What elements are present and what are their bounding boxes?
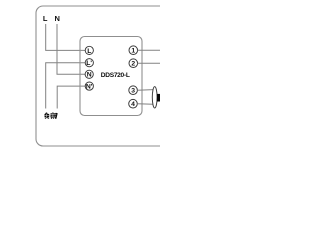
svg-text:4: 4 [131,101,135,108]
svg-text:N: N [54,14,59,23]
wire from terminal 2 to mains side [138,62,160,64]
terminal 1 [129,46,138,55]
terminal 2 [129,59,138,68]
svg-text:2: 2 [131,61,135,68]
wire from terminal N' down to load [57,86,85,108]
svg-text:L': L' [86,60,92,67]
wire from L down to terminal L [46,24,85,50]
wire from terminal L' down to load [46,63,85,109]
svg-text:N: N [87,72,92,79]
svg-text:N': N' [86,84,93,91]
svg-text:L: L [87,48,91,55]
svg-text:3: 3 [131,88,135,95]
load symbol cylinder end cap [152,87,157,108]
svg-text:1: 1 [131,48,135,55]
meter DDS720-L body [80,37,142,116]
svg-text:DDS720-L: DDS720-L [101,72,130,79]
terminal N [85,70,93,78]
terminal 3 [129,86,138,95]
wire from N down to terminal N [57,24,85,74]
wire from terminal 3 to load symbol [137,89,153,92]
load symbol body [157,94,160,102]
wire from terminal 4 to load symbol [137,103,153,106]
wire from terminal 1 to mains side [138,49,160,51]
terminal L [85,46,93,54]
outer enclosure box [36,6,174,146]
terminal L' [85,59,93,67]
terminal 4 [129,99,138,108]
svg-text:L: L [43,14,48,23]
terminal N' [85,82,93,91]
label 负载 (load) [45,112,58,118]
